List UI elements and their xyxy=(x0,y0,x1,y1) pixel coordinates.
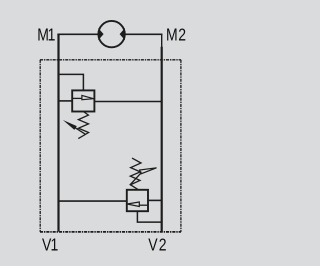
svg-text:M2: M2 xyxy=(166,26,187,45)
relief valve V2 body xyxy=(127,190,148,211)
wire: motor to M2 corner xyxy=(125,33,163,35)
motor U1 (bidirectional hydraulic motor) xyxy=(98,21,124,47)
valve 2 flow arrow xyxy=(139,204,148,206)
svg-text:V2: V2 xyxy=(148,236,168,255)
valve 2 adjustment arrow xyxy=(130,172,142,185)
valve 2 spring xyxy=(130,158,141,190)
enclosure left edge xyxy=(39,60,41,232)
motor flow triangle left xyxy=(98,28,103,40)
wire: right vertical main to V2 xyxy=(161,47,163,232)
wire: outlet of valve 2 to right wire xyxy=(148,199,162,201)
svg-text:M1: M1 xyxy=(37,26,55,45)
svg-text:V1: V1 xyxy=(42,236,58,255)
wire: pilot line of valve 2 xyxy=(137,211,162,222)
valve 1 adjustment arrow xyxy=(75,127,86,134)
relief valve V1 body xyxy=(72,90,94,111)
motor flow triangle right xyxy=(120,28,125,40)
wire: left vertical M1-V1 xyxy=(57,34,59,232)
wire: top run M1 to motor xyxy=(57,33,98,35)
wire: pilot line of valve 1 xyxy=(59,74,84,90)
valve 1 spring xyxy=(78,112,88,139)
wire: outlet of valve 1 to right wire xyxy=(94,101,161,103)
enclosure bottom edge xyxy=(40,231,181,233)
valve 1 flow arrow xyxy=(72,97,82,99)
enclosure right edge xyxy=(180,60,182,232)
wire: inlet of valve 2 from left wire xyxy=(59,200,127,202)
wire: right vertical stub below M2 xyxy=(161,34,163,48)
enclosure (dashed valve-block boundary) top edge xyxy=(40,59,181,61)
wire: inlet of valve 1 xyxy=(59,100,73,102)
